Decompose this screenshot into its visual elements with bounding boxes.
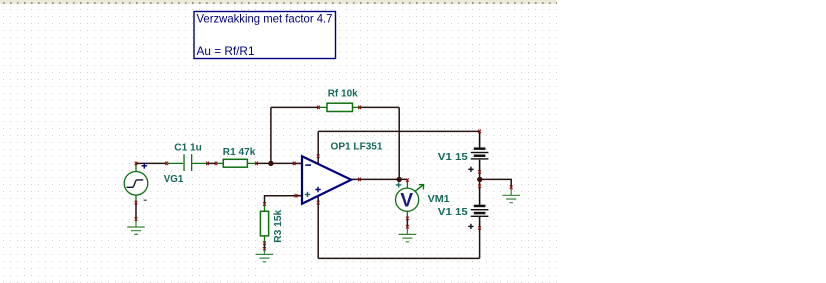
battery V1 (top)	[471, 131, 489, 172]
wire noninverting input to R3	[265, 196, 297, 204]
pin X VG1 bottom	[135, 201, 138, 205]
resistor Rf	[318, 103, 359, 111]
pin X opamp output	[358, 178, 361, 182]
ground below VM1	[399, 227, 417, 242]
capacitor C1	[168, 154, 207, 171]
svg-text:V1 15: V1 15	[438, 151, 468, 163]
pin X VG1 ground	[135, 217, 138, 221]
wire VG1 bottom to ground	[135, 203, 137, 220]
wire feedback right vertical	[398, 107, 400, 179]
pin X R1 right	[255, 162, 258, 166]
pin X battery2 top	[478, 185, 481, 189]
svg-text:Rf 10k: Rf 10k	[328, 88, 358, 100]
ground right of batteries	[502, 187, 520, 203]
pin X right ground	[510, 185, 513, 189]
pin X R3 top	[263, 202, 266, 206]
battery V1 bottom plus mark	[468, 224, 473, 229]
pin X opamp V-	[317, 201, 320, 205]
pin X VM1 bottom	[406, 217, 409, 221]
pin X marks	[135, 106, 513, 251]
wire battery2 bottom to rail	[479, 228, 481, 259]
resistor R1	[216, 159, 256, 167]
pin X Rf right	[358, 106, 361, 110]
pin X C1 right	[206, 162, 209, 166]
wire bottom supply rail	[318, 257, 479, 259]
svg-text:C1 1u: C1 1u	[174, 142, 202, 154]
pin X battery1 top	[478, 130, 481, 134]
pin X opamp noninverting	[295, 194, 298, 198]
wire feedback left vertical	[270, 107, 272, 163]
wire supply midpoint to right ground	[480, 179, 511, 187]
ground below R3	[256, 249, 274, 262]
wire battery1 to junction to battery2	[479, 172, 481, 186]
wire VM1 bottom to ground	[406, 218, 408, 226]
grid dots	[0, 4, 557, 283]
wire opamp V+ vertical	[317, 131, 319, 163]
svg-text:OP1 LF351: OP1 LF351	[331, 141, 383, 153]
svg-text:VG1: VG1	[164, 173, 184, 185]
wire C1 to R1	[207, 162, 216, 164]
svg-text:R1 47k: R1 47k	[223, 146, 256, 158]
battery V1 top plus mark	[468, 167, 473, 172]
wire R1 to opamp inverting input	[256, 162, 294, 164]
pin X R1 left	[215, 162, 218, 166]
pin X R3 ground	[263, 247, 266, 251]
svg-text:R3 15k: R3 15k	[272, 210, 284, 243]
svg-text:V: V	[400, 190, 413, 211]
pin X battery2 bottom	[478, 226, 481, 230]
annotation text box	[194, 11, 336, 58]
pin X R3 bottom	[263, 241, 266, 245]
svg-text:V1 15: V1 15	[438, 206, 468, 218]
pin X battery1 bottom	[478, 170, 481, 174]
node junction at output	[397, 177, 402, 182]
battery V1 (bottom)	[471, 186, 489, 228]
VM1 plus polarity mark	[396, 182, 401, 187]
pin X opamp inverting	[293, 162, 296, 166]
ground below VG1	[127, 219, 145, 234]
voltmeter VM1	[396, 179, 424, 218]
wire Rf right to corner	[360, 106, 400, 108]
pin X VM1 ground	[406, 225, 409, 229]
wire opamp output to node	[350, 178, 407, 180]
svg-text:VM1: VM1	[428, 193, 450, 205]
VG1 minus polarity mark	[144, 199, 147, 201]
resistor R3	[260, 204, 268, 243]
node junction at R1/feedback	[268, 161, 273, 166]
pin X VM1 top	[406, 178, 409, 182]
toolbar bottom strip	[0, 0, 557, 4]
node junction supply midpoint	[477, 177, 482, 182]
wire opamp V- vertical	[317, 197, 319, 258]
wire top supply rail	[318, 130, 479, 132]
svg-text:Au = Rf/R1: Au = Rf/R1	[197, 44, 255, 58]
svg-text:Verzwakking met factor 4.7: Verzwakking met factor 4.7	[197, 11, 333, 25]
voltage generator VG1	[124, 163, 148, 202]
VG1 plus polarity mark	[142, 163, 148, 169]
wire node to Rf left	[271, 106, 319, 108]
pin X Rf left	[317, 106, 320, 110]
wire R3 bottom to ground	[264, 243, 266, 249]
wire VG1 to C1	[136, 162, 167, 164]
pin X opamp V+	[317, 155, 320, 159]
pin X C1 left	[166, 162, 169, 166]
pin X VG1 top	[135, 162, 138, 166]
op-amp OP1	[294, 156, 351, 203]
